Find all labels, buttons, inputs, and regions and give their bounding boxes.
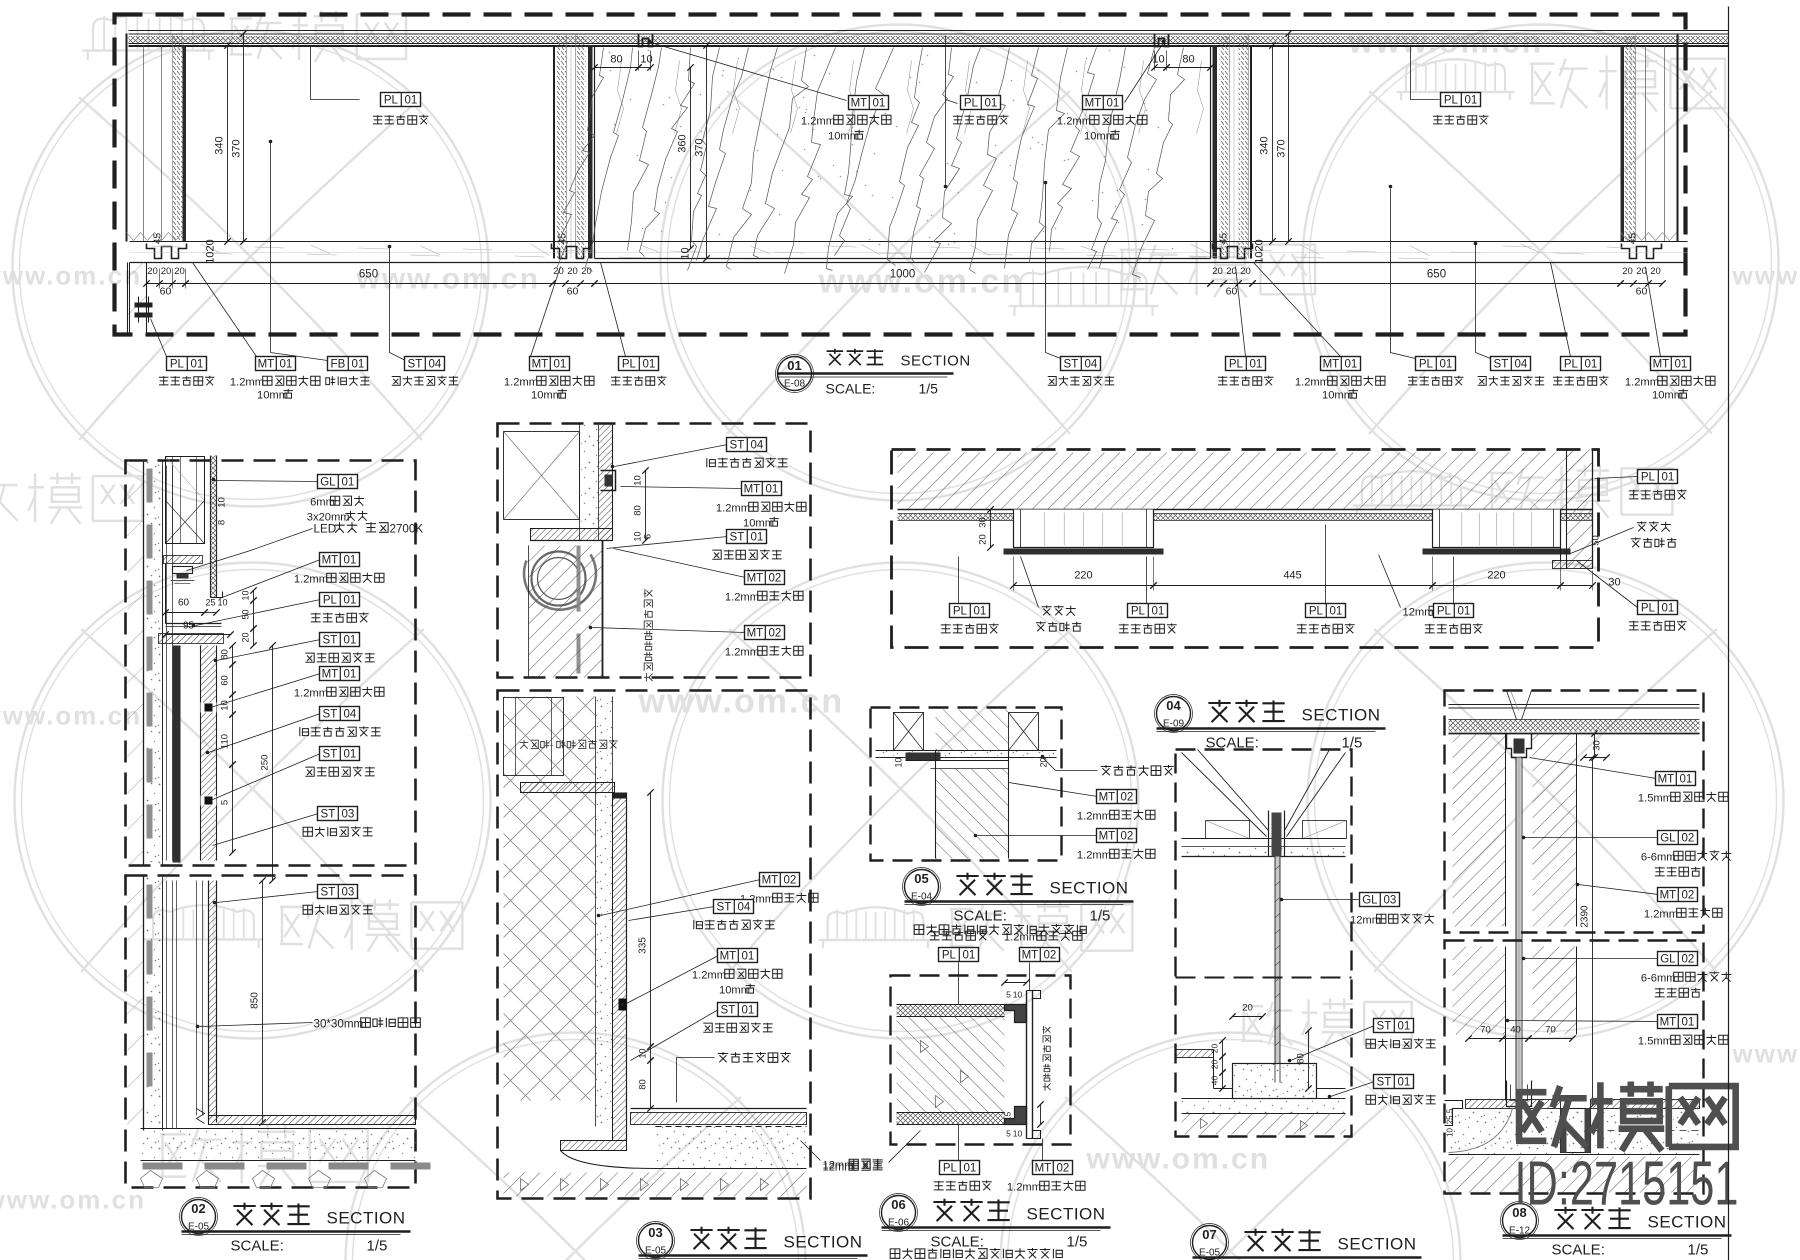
svg-text:02: 02 bbox=[1682, 954, 1695, 966]
detail06 label MT02 top bbox=[1029, 963, 1031, 991]
svg-text:07: 07 bbox=[1202, 1227, 1216, 1242]
svg-text:370: 370 bbox=[1276, 139, 1288, 157]
detail05 border bbox=[871, 708, 1062, 861]
svg-text:20: 20 bbox=[1650, 266, 1661, 277]
svg-text:MT: MT bbox=[1660, 1017, 1677, 1029]
svg-text:PL: PL bbox=[622, 359, 637, 371]
detail03 label MT01 top bbox=[621, 487, 743, 489]
svg-text:www.om.cn: www.om.cn bbox=[356, 263, 541, 296]
svg-text:10: 10 bbox=[680, 247, 692, 259]
detail02 box2 label ST03 bbox=[217, 892, 319, 903]
svg-text:250: 250 bbox=[260, 755, 271, 771]
svg-text:SECTION: SECTION bbox=[327, 1209, 406, 1228]
watermark mid-left bbox=[0, 476, 18, 521]
svg-text:02: 02 bbox=[769, 573, 782, 585]
svg-text:-: - bbox=[550, 741, 553, 752]
svg-text:04: 04 bbox=[1515, 359, 1528, 371]
detail03 box1 xpanel bbox=[504, 432, 580, 520]
svg-text:MT: MT bbox=[322, 555, 339, 567]
detail04 cove2 bbox=[1433, 510, 1561, 554]
title section 08 bbox=[1503, 1204, 1537, 1238]
detail03 box2 grid wall bbox=[504, 697, 596, 1101]
svg-text:850: 850 bbox=[250, 992, 261, 1009]
svg-text:6mm: 6mm bbox=[310, 497, 335, 509]
detail04 label lamp a bbox=[1021, 557, 1039, 608]
detail02 box2 border bbox=[126, 876, 416, 1188]
wall column left bbox=[126, 34, 128, 242]
svg-text:01: 01 bbox=[643, 359, 656, 371]
detail02 led cove bbox=[164, 556, 203, 564]
svg-text:SCALE:: SCALE: bbox=[954, 908, 1007, 925]
svg-text:MT: MT bbox=[1099, 792, 1116, 804]
svg-text:02: 02 bbox=[1121, 831, 1134, 843]
detail08 dim30 bbox=[1594, 734, 1596, 758]
svg-text:220: 220 bbox=[1074, 570, 1092, 582]
svg-text:PL: PL bbox=[323, 595, 338, 607]
svg-text:01: 01 bbox=[191, 359, 204, 371]
svg-text:20: 20 bbox=[1226, 266, 1237, 277]
svg-text:1/5: 1/5 bbox=[1067, 1234, 1088, 1251]
detail03 subfloor bbox=[504, 1173, 807, 1197]
detail02 box1 border bbox=[126, 461, 416, 866]
detail02 label GL01 bbox=[214, 481, 319, 482]
svg-text:ST: ST bbox=[730, 532, 745, 544]
detail03 box1 dense col bbox=[599, 424, 613, 541]
detail03 label ST04 bbox=[629, 907, 715, 921]
label PL01 bottom8 bbox=[1236, 267, 1246, 357]
detail07 left floor bbox=[1176, 1050, 1214, 1058]
svg-text:PL: PL bbox=[953, 606, 968, 618]
svg-text:SECTION: SECTION bbox=[1338, 1235, 1417, 1254]
vdim 340/370 right bbox=[1272, 46, 1274, 242]
svg-text:03: 03 bbox=[342, 809, 355, 821]
detail07 braces bbox=[1182, 753, 1267, 837]
svg-text:GL: GL bbox=[1362, 895, 1378, 907]
detail08 box1 border bbox=[1445, 691, 1704, 933]
title section 02 bbox=[182, 1200, 216, 1234]
dim 80/10 left bbox=[595, 67, 639, 69]
vdim 360/370 marble bbox=[690, 68, 692, 249]
svg-text:ST: ST bbox=[323, 635, 338, 647]
detail04 cove1 bbox=[1014, 510, 1154, 554]
detail06 label PL01 top bbox=[958, 963, 960, 1005]
detail07 subfloor bbox=[1182, 1114, 1346, 1135]
svg-text:www.om.cn: www.om.cn bbox=[0, 1185, 146, 1215]
svg-text:01: 01 bbox=[985, 98, 998, 110]
svg-text:PL: PL bbox=[170, 359, 185, 371]
svg-text:01: 01 bbox=[1398, 1021, 1411, 1033]
notch under right wall bbox=[1622, 244, 1662, 259]
detail08 bracket bbox=[1507, 734, 1532, 758]
watermark row5-center bbox=[828, 907, 924, 940]
svg-text:MT: MT bbox=[851, 98, 868, 110]
detail04 label PL01 d bbox=[1453, 557, 1455, 604]
svg-text:20: 20 bbox=[1210, 1060, 1220, 1070]
svg-text:8: 8 bbox=[217, 520, 228, 525]
svg-text:ST: ST bbox=[323, 709, 338, 721]
svg-text:SCALE:: SCALE: bbox=[1552, 1242, 1605, 1259]
svg-text:45: 45 bbox=[153, 233, 164, 245]
svg-text:60: 60 bbox=[160, 286, 172, 298]
svg-text:80: 80 bbox=[610, 54, 622, 66]
label ST04 bottom7 bbox=[1046, 184, 1061, 359]
detail03 box2 stipple col bbox=[596, 697, 613, 1127]
svg-text:PL: PL bbox=[1229, 359, 1244, 371]
svg-text:40: 40 bbox=[1510, 1025, 1521, 1036]
svg-text:6-6mm: 6-6mm bbox=[1641, 852, 1676, 864]
wall jamb J2 bbox=[1213, 46, 1218, 259]
svg-text:05: 05 bbox=[914, 871, 928, 886]
detail02 box2 dim 850 bbox=[262, 881, 264, 1123]
detail06 border bbox=[891, 976, 1071, 1145]
detail04 slab hatch bbox=[898, 453, 1593, 510]
detail03 box2 border bbox=[498, 691, 811, 1199]
svg-text:20: 20 bbox=[581, 266, 592, 277]
watermark row6 bbox=[160, 1129, 221, 1182]
detail06 label plywood bbox=[889, 1131, 921, 1163]
detail02 label ST03 bbox=[213, 814, 319, 846]
svg-text:01: 01 bbox=[280, 359, 293, 371]
clamp detail bbox=[135, 303, 153, 308]
detail03 label ST04 top bbox=[615, 445, 728, 467]
clip MT right bbox=[1155, 34, 1169, 47]
detail08 label MT02 bbox=[1579, 885, 1659, 895]
label ST04 bottom4 bbox=[390, 248, 406, 361]
label MT01 bottom2 bbox=[193, 263, 257, 357]
detail06 bottom band bbox=[897, 1113, 1005, 1125]
svg-text:MT: MT bbox=[258, 359, 275, 371]
notch under left wall bbox=[147, 244, 187, 259]
svg-text:1.2mm: 1.2mm bbox=[1057, 116, 1091, 128]
detail04 label PL01 c bbox=[1325, 525, 1327, 604]
svg-text:PL: PL bbox=[942, 950, 957, 962]
svg-text:220: 220 bbox=[1487, 570, 1505, 582]
svg-text:01: 01 bbox=[1680, 774, 1693, 786]
svg-text:20: 20 bbox=[1210, 1044, 1220, 1054]
svg-text:SECTION: SECTION bbox=[784, 1233, 863, 1252]
svg-text:1.2mm: 1.2mm bbox=[504, 377, 538, 389]
svg-text:10: 10 bbox=[894, 757, 904, 767]
detail04 plaster band bbox=[898, 513, 1593, 515]
svg-text:LED: LED bbox=[314, 523, 337, 536]
detail08 box1 hatch right bbox=[1533, 735, 1577, 927]
svg-text:MT: MT bbox=[747, 573, 764, 585]
svg-text:20: 20 bbox=[161, 266, 172, 277]
svg-text:ST: ST bbox=[721, 1005, 736, 1017]
svg-text:1.2mm: 1.2mm bbox=[1625, 377, 1659, 389]
svg-text:PL: PL bbox=[1444, 95, 1459, 107]
label PL01 marble bbox=[946, 36, 958, 104]
detail02 label MT01b bbox=[211, 674, 321, 708]
label PL01 panelA bbox=[311, 47, 360, 100]
svg-text:01: 01 bbox=[742, 951, 755, 963]
svg-text:MT: MT bbox=[1099, 831, 1116, 843]
svg-text:20: 20 bbox=[1622, 266, 1633, 277]
svg-text:335: 335 bbox=[638, 937, 649, 954]
svg-text:340: 340 bbox=[1259, 136, 1271, 154]
svg-text:5: 5 bbox=[1006, 1129, 1011, 1139]
detail02 floor cap bbox=[209, 1116, 416, 1125]
svg-text:45: 45 bbox=[1628, 233, 1639, 245]
svg-text:MT: MT bbox=[1022, 950, 1039, 962]
svg-text:04: 04 bbox=[751, 440, 764, 452]
detail03 box1 hatch block bbox=[529, 546, 603, 678]
svg-text:01: 01 bbox=[742, 1005, 755, 1017]
title section 05 bbox=[905, 870, 939, 904]
svg-text:www.om.cn: www.om.cn bbox=[0, 701, 142, 731]
svg-text:ID:2715151: ID:2715151 bbox=[1515, 1150, 1739, 1219]
svg-text:GL: GL bbox=[1660, 833, 1676, 845]
svg-text:01: 01 bbox=[787, 358, 801, 373]
detail03 box1 border bbox=[498, 424, 811, 678]
detail03 label MT02 bbox=[601, 880, 761, 916]
svg-text:MT: MT bbox=[720, 951, 737, 963]
svg-text:1.2mm: 1.2mm bbox=[725, 647, 759, 659]
title section 04 bbox=[1157, 697, 1191, 731]
svg-text:650: 650 bbox=[359, 269, 378, 281]
svg-text:01: 01 bbox=[344, 595, 357, 607]
detail03 box2 dims bbox=[650, 793, 652, 1047]
detail05 door head bbox=[936, 769, 1009, 859]
svg-text:01: 01 bbox=[1250, 359, 1263, 371]
title section 01 bbox=[778, 357, 812, 391]
svg-text:60: 60 bbox=[1226, 286, 1238, 298]
svg-text:1.2mm: 1.2mm bbox=[692, 970, 726, 982]
svg-text:MT: MT bbox=[1323, 359, 1340, 371]
detail02 label LED bbox=[187, 529, 313, 571]
detail03 label plywood bbox=[801, 1141, 821, 1161]
svg-text:www.om.cn: www.om.cn bbox=[1732, 261, 1800, 291]
detail08 top band bbox=[1449, 704, 1700, 706]
svg-text:02: 02 bbox=[1682, 890, 1695, 902]
label PL01 panelB bbox=[1411, 47, 1440, 100]
detail04 label plywood bbox=[1379, 555, 1401, 608]
wall column right bbox=[1621, 46, 1625, 242]
detail05 label MT02b bbox=[978, 835, 1098, 837]
svg-text:10: 10 bbox=[241, 590, 251, 600]
detail08 vee bbox=[1507, 691, 1517, 720]
svg-text:FB: FB bbox=[331, 359, 346, 371]
svg-text:60: 60 bbox=[178, 598, 190, 609]
svg-text:ST: ST bbox=[321, 809, 336, 821]
svg-text:MT: MT bbox=[762, 875, 779, 887]
svg-text:2390: 2390 bbox=[1580, 905, 1591, 928]
detail03 label MT02b bbox=[593, 628, 746, 633]
section 01 ceiling double line bbox=[129, 30, 1729, 32]
detail02 subfloor bbox=[143, 1163, 183, 1170]
marble panel ST04 bbox=[594, 46, 596, 259]
label MT01 marble-left bbox=[651, 43, 847, 101]
detail07 floor slab bbox=[1182, 1099, 1346, 1114]
detail04 label PL01 right-top bbox=[1595, 477, 1638, 479]
detail06 label MT02 bot bbox=[1042, 1139, 1044, 1161]
svg-text:650: 650 bbox=[1427, 269, 1446, 281]
detail02 floor slab bbox=[141, 1129, 416, 1161]
watermark circles backdrop bbox=[13, 31, 489, 507]
svg-text:PL: PL bbox=[1419, 359, 1434, 371]
detail04 label PL01 b bbox=[1146, 557, 1148, 604]
detail02 label ST01a bbox=[217, 640, 321, 661]
svg-text:01: 01 bbox=[1458, 606, 1471, 618]
detail04 label PL01 right-bot bbox=[1577, 561, 1638, 608]
svg-text:1.2mm: 1.2mm bbox=[1644, 909, 1678, 921]
svg-text:03: 03 bbox=[648, 1225, 662, 1240]
detail02 blocking bbox=[166, 457, 205, 544]
watermark logo top-left bbox=[93, 13, 204, 50]
svg-text:ST: ST bbox=[321, 887, 336, 899]
detail04 label PL01 a bbox=[958, 557, 960, 604]
detail08 subfloor bbox=[1449, 1157, 1700, 1193]
detail03 label ST01 top bbox=[607, 537, 728, 549]
watermark right-mid crown bbox=[1242, 1002, 1292, 1045]
svg-text:40: 40 bbox=[1210, 1076, 1220, 1086]
svg-text:GL: GL bbox=[1660, 954, 1676, 966]
svg-text:02: 02 bbox=[1121, 792, 1134, 804]
panelB center dot bbox=[1389, 185, 1393, 189]
clip MT left bbox=[639, 34, 653, 47]
detail07 label ST01a bbox=[1291, 1026, 1375, 1061]
svg-text:60: 60 bbox=[1636, 286, 1648, 298]
svg-text:PL: PL bbox=[1641, 603, 1656, 615]
svg-text:370: 370 bbox=[694, 138, 706, 156]
svg-text:01: 01 bbox=[964, 1163, 977, 1175]
svg-text:02: 02 bbox=[1682, 833, 1695, 845]
wall jamb J1 bbox=[553, 46, 555, 259]
detail02 box1 wall hatch bbox=[128, 461, 144, 866]
svg-text:01: 01 bbox=[1682, 1017, 1695, 1029]
svg-text:30: 30 bbox=[1592, 740, 1603, 751]
svg-text:01: 01 bbox=[344, 555, 357, 567]
detail05 label ceiling bbox=[1043, 758, 1098, 771]
detail07 post bbox=[1268, 811, 1270, 857]
svg-text:02: 02 bbox=[784, 875, 797, 887]
svg-text:80: 80 bbox=[638, 1079, 649, 1090]
detail06 top band bbox=[897, 1005, 1005, 1017]
label PL01 bottom12 bbox=[1551, 263, 1571, 357]
svg-text:MT: MT bbox=[322, 669, 339, 681]
svg-text:1.2mm: 1.2mm bbox=[1077, 850, 1111, 862]
label MT01 marble-right bbox=[1125, 43, 1164, 103]
svg-text:01: 01 bbox=[342, 477, 355, 489]
title section 03 bbox=[639, 1224, 673, 1258]
svg-text:10mm: 10mm bbox=[531, 390, 562, 402]
svg-text:ST: ST bbox=[717, 902, 732, 914]
section 01 dashed border bbox=[115, 15, 1686, 335]
svg-text:SECTION: SECTION bbox=[1027, 1205, 1106, 1224]
svg-text:20: 20 bbox=[1212, 266, 1223, 277]
svg-text:SCALE:: SCALE: bbox=[231, 1238, 284, 1255]
svg-text:01: 01 bbox=[1330, 606, 1343, 618]
section 01 ceiling crosshatch band bbox=[129, 36, 1729, 44]
svg-text:01: 01 bbox=[405, 95, 418, 107]
detail07 border bbox=[1176, 750, 1352, 1137]
title section 06 bbox=[882, 1196, 916, 1230]
detail08 box2 hatch right bbox=[1533, 947, 1577, 1035]
svg-text:01: 01 bbox=[1152, 606, 1165, 618]
detail08 dim2390 bbox=[1592, 758, 1594, 1106]
detail02 box2 plywood bbox=[162, 881, 164, 1129]
svg-text:MT: MT bbox=[532, 359, 549, 371]
detail08 label MT01 top bbox=[1530, 758, 1657, 779]
svg-text:5: 5 bbox=[220, 800, 231, 805]
detail07 dims bbox=[1233, 1016, 1263, 1018]
detail02 wall stone bbox=[173, 646, 181, 863]
svg-text:80: 80 bbox=[1182, 54, 1194, 66]
svg-text:04: 04 bbox=[738, 902, 751, 914]
svg-text:1.2mm: 1.2mm bbox=[725, 592, 759, 604]
detail08 label GL02 top bbox=[1525, 837, 1659, 839]
svg-text:60: 60 bbox=[567, 286, 579, 298]
svg-text:10mm: 10mm bbox=[828, 131, 859, 143]
svg-text:01: 01 bbox=[1465, 95, 1478, 107]
svg-text:www.om.cn: www.om.cn bbox=[818, 263, 1025, 301]
detail04 label lamp right bbox=[1571, 528, 1634, 554]
svg-text:SECTION: SECTION bbox=[1302, 706, 1381, 725]
svg-text:1/5: 1/5 bbox=[367, 1238, 388, 1255]
svg-text:10: 10 bbox=[633, 531, 643, 541]
svg-text:445: 445 bbox=[1283, 570, 1301, 582]
svg-text:SCALE:: SCALE: bbox=[826, 381, 876, 397]
svg-text:1020: 1020 bbox=[205, 239, 217, 263]
svg-text:PL: PL bbox=[384, 95, 399, 107]
svg-text:MT: MT bbox=[744, 484, 761, 496]
detail03 box1 stipple col bbox=[580, 424, 599, 541]
svg-text:02: 02 bbox=[191, 1201, 205, 1216]
svg-text:01: 01 bbox=[873, 98, 886, 110]
svg-text:10mm: 10mm bbox=[1652, 390, 1683, 402]
svg-text:SECTION: SECTION bbox=[901, 353, 971, 370]
svg-text:ST: ST bbox=[1377, 1021, 1392, 1033]
vdim 340/370 left bbox=[227, 46, 229, 242]
svg-text:25: 25 bbox=[205, 598, 215, 608]
detail05 head step bbox=[906, 753, 941, 761]
svg-text:01: 01 bbox=[766, 484, 779, 496]
label FB01 bottom3 bbox=[271, 353, 328, 361]
detail03 box2 note bbox=[520, 740, 529, 749]
dim chain bottom bbox=[147, 283, 186, 285]
svg-text:SCALE:: SCALE: bbox=[931, 1234, 984, 1251]
detail08 label GL02 bot bbox=[1525, 958, 1659, 960]
watermark row5-left bbox=[153, 905, 254, 939]
watermark mid-right bbox=[1362, 471, 1461, 505]
svg-text:10mm: 10mm bbox=[719, 985, 750, 997]
detail02 mirror GL01 bbox=[210, 456, 212, 598]
svg-text:1000: 1000 bbox=[890, 269, 916, 281]
svg-text:04: 04 bbox=[1166, 698, 1181, 713]
detail02 box1 plywood bbox=[162, 466, 164, 861]
detail02 shelf bbox=[166, 623, 222, 625]
label PL01 bottom1 bbox=[151, 319, 167, 357]
svg-text:02: 02 bbox=[769, 628, 782, 640]
svg-text:20: 20 bbox=[567, 266, 578, 277]
detail02 box2 wall hatch bbox=[128, 876, 144, 1131]
svg-text:5: 5 bbox=[643, 534, 653, 539]
svg-text:01: 01 bbox=[751, 532, 764, 544]
detail05 label MT02a bbox=[1009, 783, 1098, 797]
svg-text:1.2mm: 1.2mm bbox=[801, 116, 835, 128]
detail02 label MT01a bbox=[220, 560, 321, 599]
svg-text:ST: ST bbox=[408, 359, 423, 371]
detail03 label MT01 bbox=[625, 956, 719, 1005]
svg-text:2700K: 2700K bbox=[390, 523, 424, 536]
svg-text:ST: ST bbox=[323, 749, 338, 761]
svg-text:10: 10 bbox=[217, 497, 228, 508]
svg-text:01: 01 bbox=[1398, 1077, 1411, 1089]
notch under jamb J1 bbox=[552, 244, 592, 259]
detail02 label ST04 bbox=[209, 714, 321, 753]
svg-text:04: 04 bbox=[429, 359, 442, 371]
wall below baseboard left bbox=[128, 263, 147, 335]
